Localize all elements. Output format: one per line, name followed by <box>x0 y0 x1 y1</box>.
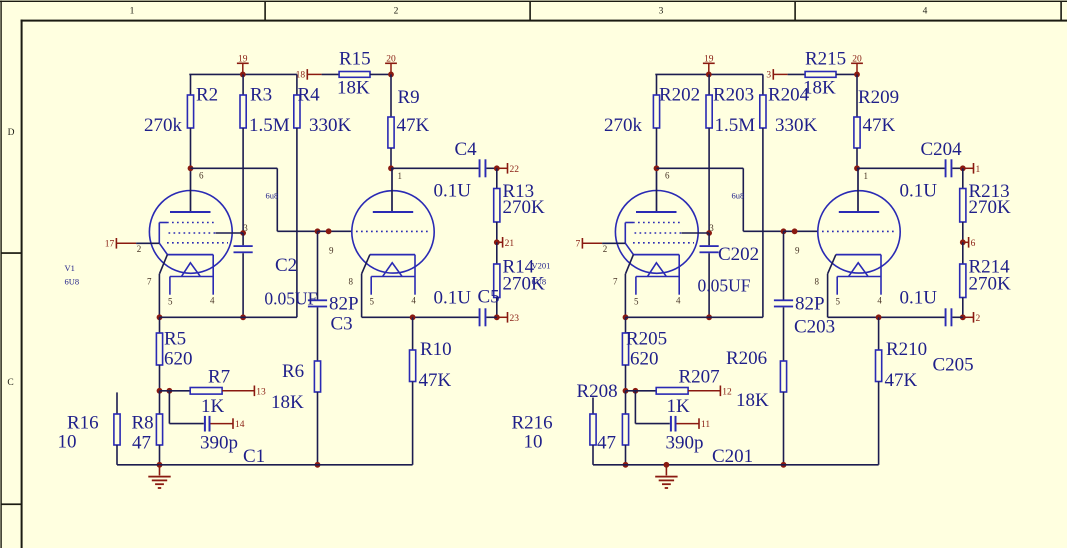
junction triode grid node <box>781 228 787 234</box>
svg-text:7: 7 <box>575 240 580 250</box>
svg-text:R209: R209 <box>858 87 899 108</box>
capacitor C204 <box>945 159 963 177</box>
junction C2 to cathode bus <box>240 314 246 320</box>
svg-text:82P: 82P <box>329 293 359 314</box>
port 22 <box>497 163 519 175</box>
pentode grids <box>159 223 228 244</box>
svg-text:23: 23 <box>510 314 520 324</box>
wire coupling to triode grid node <box>277 230 317 232</box>
svg-text:1K: 1K <box>667 396 691 417</box>
svg-text:10: 10 <box>524 432 543 453</box>
junction node 20 <box>854 72 860 78</box>
svg-text:0.1U: 0.1U <box>900 181 938 202</box>
resistor R216 <box>590 398 596 465</box>
wire coupling to triode grid node <box>743 230 783 232</box>
capacitor C2 <box>234 233 253 317</box>
wire ground bus <box>117 464 413 466</box>
capacitor C201 390p <box>670 416 677 432</box>
wire R6 to ground bus <box>317 392 319 465</box>
svg-text:270k: 270k <box>144 115 183 136</box>
wire pentode cathode pin 7 <box>624 274 626 318</box>
svg-text:R7: R7 <box>208 367 230 388</box>
svg-text:1: 1 <box>976 165 981 175</box>
port 20 <box>385 54 397 74</box>
svg-text:18: 18 <box>296 71 306 81</box>
svg-text:9: 9 <box>329 246 334 256</box>
svg-text:270K: 270K <box>969 274 1012 295</box>
resistor R13 <box>494 168 500 242</box>
svg-text:C204: C204 <box>921 139 963 160</box>
sheet border left band inner vertical <box>21 20 23 548</box>
svg-text:2: 2 <box>394 7 399 17</box>
resistor R208 <box>622 391 628 465</box>
junction node 21 <box>494 239 500 245</box>
svg-text:R216: R216 <box>512 412 553 433</box>
resistor R10 <box>410 317 416 465</box>
port 6 <box>963 237 976 249</box>
port 7 <box>575 238 625 250</box>
triode plate <box>373 168 413 212</box>
junction cap branch <box>633 388 639 394</box>
resistor R209 <box>854 74 860 168</box>
svg-text:2: 2 <box>603 244 608 254</box>
wire to R7 <box>160 390 191 392</box>
svg-text:7: 7 <box>147 277 152 287</box>
wire coupling vertical <box>742 168 744 231</box>
svg-text:6u8: 6u8 <box>732 191 745 201</box>
svg-text:47: 47 <box>132 432 151 453</box>
svg-text:V201: V201 <box>532 261 551 271</box>
junction pentode grid2 node <box>240 230 246 236</box>
capacitor C205 <box>945 308 963 326</box>
resistor R210 <box>876 317 882 465</box>
ground <box>148 465 170 489</box>
junction C2 to cathode bus <box>706 314 712 320</box>
svg-text:R210: R210 <box>886 339 927 360</box>
svg-text:1.5M: 1.5M <box>249 115 290 136</box>
svg-text:R16: R16 <box>67 412 99 433</box>
svg-text:R206: R206 <box>726 348 767 369</box>
svg-text:R202: R202 <box>659 85 700 106</box>
resistor R14 <box>494 242 500 317</box>
junction triode plate node 1 <box>388 165 394 171</box>
svg-text:R4: R4 <box>298 85 321 106</box>
wire top rail <box>189 73 297 75</box>
svg-text:390p: 390p <box>200 432 238 453</box>
wire R15 to node 20 <box>370 73 391 75</box>
svg-text:5: 5 <box>370 297 375 307</box>
svg-text:R205: R205 <box>626 329 667 350</box>
svg-text:C: C <box>7 378 13 388</box>
junction cap branch <box>167 388 173 394</box>
port 19 <box>237 54 249 74</box>
port 3 <box>766 69 805 81</box>
junction triode cathode <box>410 314 416 320</box>
svg-text:13: 13 <box>256 388 266 398</box>
junction R8 ground bus <box>623 462 629 468</box>
row tick D-C <box>1 252 21 254</box>
resistor R9 <box>388 74 394 168</box>
pentode grid2 pin line <box>682 232 710 234</box>
svg-text:11: 11 <box>701 420 710 430</box>
junction node 22 <box>494 165 500 171</box>
svg-text:R203: R203 <box>713 85 754 106</box>
capacitor C203 <box>774 231 793 361</box>
svg-text:0.1U: 0.1U <box>900 288 938 309</box>
svg-text:V1: V1 <box>65 263 75 273</box>
junction R5 bottom <box>157 388 163 394</box>
sheet border outer left line <box>0 1 1 548</box>
svg-text:6U8: 6U8 <box>532 277 547 287</box>
port 18 <box>296 69 340 81</box>
svg-text:47K: 47K <box>419 370 452 391</box>
svg-text:R5: R5 <box>164 329 186 350</box>
wire to R7 <box>626 390 657 392</box>
junction node 23 <box>494 314 500 320</box>
wire grid node to triode grid pin 9 <box>784 230 818 232</box>
junction pentode plate node 6 <box>188 165 194 171</box>
junction node 22 <box>960 165 966 171</box>
svg-text:C1: C1 <box>243 446 265 467</box>
svg-text:C203: C203 <box>794 317 835 338</box>
triode heater <box>837 255 881 295</box>
wire cathode bus <box>160 316 297 318</box>
ground <box>655 465 677 489</box>
svg-text:3: 3 <box>243 223 248 233</box>
svg-text:10: 10 <box>58 432 77 453</box>
tube V1 pentode section <box>149 191 232 274</box>
junction triode grid node <box>315 228 321 234</box>
svg-text:4: 4 <box>210 296 215 306</box>
tube V201 pentode section <box>615 191 698 274</box>
pentode heater <box>636 255 679 295</box>
svg-text:6: 6 <box>199 171 204 181</box>
junction ground <box>664 462 670 468</box>
svg-text:19: 19 <box>238 54 248 64</box>
resistor R205 <box>622 317 628 391</box>
wire cathode to junction <box>828 316 879 318</box>
svg-text:8: 8 <box>349 277 354 287</box>
svg-text:R3: R3 <box>250 85 272 106</box>
svg-text:620: 620 <box>164 349 193 370</box>
svg-text:18K: 18K <box>736 390 769 411</box>
svg-text:4: 4 <box>877 296 882 306</box>
capacitor C4 <box>479 159 497 177</box>
junction pentode plate node 6 <box>654 165 660 171</box>
svg-text:4: 4 <box>411 296 416 306</box>
junction grid pin 9 <box>792 228 798 234</box>
svg-text:12: 12 <box>722 388 732 398</box>
junction R8 ground bus <box>157 462 163 468</box>
capacitor C5 <box>479 308 497 326</box>
svg-text:C3: C3 <box>331 314 353 335</box>
pentode plate <box>636 168 677 212</box>
resistor R2 <box>187 74 193 168</box>
tube triode section <box>352 191 434 273</box>
svg-text:R6: R6 <box>282 361 304 382</box>
svg-text:270K: 270K <box>969 197 1012 218</box>
resistor R15 <box>339 72 370 78</box>
svg-text:0.1U: 0.1U <box>434 181 472 202</box>
svg-text:3: 3 <box>659 7 664 17</box>
triode grid <box>822 230 896 232</box>
junction pentode grid2 node <box>706 230 712 236</box>
port 21 <box>497 237 515 249</box>
wire cathode bus <box>626 316 763 318</box>
wire triode cathode to C5 <box>879 316 945 318</box>
wire cap branch horizontal <box>635 423 669 425</box>
svg-text:270k: 270k <box>604 115 643 136</box>
svg-text:6: 6 <box>971 239 976 249</box>
svg-text:2: 2 <box>976 314 981 324</box>
sheet border outer top line <box>0 1 1067 2</box>
wire cap branch horizontal <box>169 423 203 425</box>
port 2 <box>963 312 981 324</box>
wire cap branch vertical <box>634 391 636 424</box>
svg-text:47K: 47K <box>863 115 896 136</box>
resistor R204 <box>760 74 766 317</box>
svg-text:R2: R2 <box>196 85 218 106</box>
svg-text:1: 1 <box>398 171 403 181</box>
svg-text:5: 5 <box>634 297 639 307</box>
port 11 <box>677 418 711 430</box>
tube triode section <box>818 191 900 273</box>
resistor R4 <box>294 74 300 317</box>
junction node 23 <box>960 314 966 320</box>
wire plate node to C4 <box>391 167 479 169</box>
junction node 19 <box>706 72 712 78</box>
svg-text:18K: 18K <box>803 78 836 99</box>
wire R15 to node 20 <box>836 73 857 75</box>
svg-text:R9: R9 <box>398 87 420 108</box>
wire coupling vertical <box>276 168 278 231</box>
wire R6 to ground bus <box>783 392 785 465</box>
junction grid pin 9 <box>326 228 332 234</box>
triode plate <box>839 168 879 212</box>
junction R5 bottom <box>623 388 629 394</box>
resistor R5 <box>156 317 162 391</box>
capacitor C3 <box>308 231 327 361</box>
wire top rail <box>655 73 763 75</box>
svg-text:0.1U: 0.1U <box>434 288 472 309</box>
row tick C-B <box>1 503 21 505</box>
svg-text:C5: C5 <box>478 286 500 307</box>
wire cathode to junction <box>362 316 413 318</box>
wire triode cathode pin 8 <box>827 274 829 318</box>
junction cathode bus left <box>623 314 629 320</box>
svg-text:7: 7 <box>613 277 618 287</box>
pentode heater <box>170 255 213 295</box>
svg-text:8: 8 <box>815 277 820 287</box>
sheet border column tick 2-3 <box>529 2 531 21</box>
svg-text:D: D <box>8 128 15 138</box>
pentode grid2 pin line <box>216 232 244 234</box>
port 14 <box>211 418 245 430</box>
sheet border column tick right <box>1060 2 1062 21</box>
junction R6 ground bus <box>781 462 787 468</box>
port 20 <box>851 54 863 74</box>
svg-text:6U8: 6U8 <box>65 277 80 287</box>
svg-text:6u8: 6u8 <box>266 191 279 201</box>
svg-text:47: 47 <box>597 432 616 453</box>
svg-text:47K: 47K <box>885 370 918 391</box>
svg-text:C2: C2 <box>275 255 297 276</box>
svg-text:C4: C4 <box>455 139 478 160</box>
junction triode cathode <box>876 314 882 320</box>
svg-text:3: 3 <box>709 223 714 233</box>
svg-text:18K: 18K <box>271 392 304 413</box>
resistor R206 <box>780 361 786 392</box>
triode heater <box>371 255 415 295</box>
wire plate node to C4 <box>857 167 945 169</box>
pentode plate <box>170 168 211 212</box>
svg-text:620: 620 <box>630 349 659 370</box>
pentode cathode <box>159 243 213 274</box>
port 1 <box>963 163 981 175</box>
svg-text:0.05UF: 0.05UF <box>698 276 751 296</box>
port 12 <box>688 386 732 398</box>
svg-text:C202: C202 <box>718 244 759 265</box>
capacitor C1 390p <box>204 416 211 432</box>
resistor R207 <box>656 388 688 395</box>
svg-text:5: 5 <box>836 297 841 307</box>
svg-text:20: 20 <box>852 54 862 64</box>
wire triode cathode pin 8 <box>361 274 363 318</box>
sheet border column tick 1-2 <box>264 2 266 21</box>
svg-text:17: 17 <box>105 240 115 250</box>
svg-text:4: 4 <box>676 296 681 306</box>
svg-text:82P: 82P <box>795 293 825 314</box>
svg-text:5: 5 <box>168 297 173 307</box>
resistor R8 <box>156 391 162 465</box>
svg-text:18K: 18K <box>337 78 370 99</box>
wire triode cathode to C5 <box>413 316 479 318</box>
port 17 <box>105 238 160 250</box>
resistor R16 <box>114 392 120 464</box>
resistor R7 <box>190 388 222 395</box>
pentode grids <box>625 223 694 244</box>
junction node 21 <box>960 239 966 245</box>
port 13 <box>222 386 266 398</box>
svg-text:20: 20 <box>386 54 396 64</box>
svg-text:22: 22 <box>510 165 520 175</box>
svg-text:47K: 47K <box>397 115 430 136</box>
svg-text:19: 19 <box>704 54 714 64</box>
svg-text:6: 6 <box>665 171 670 181</box>
svg-text:1.5M: 1.5M <box>715 115 756 136</box>
resistor R202 <box>653 74 659 168</box>
svg-text:330K: 330K <box>309 115 352 136</box>
resistor R3 <box>240 74 246 233</box>
svg-text:R10: R10 <box>420 339 452 360</box>
junction node 20 <box>388 72 394 78</box>
sheet border column tick 3-4 <box>794 2 796 21</box>
wire ground bus <box>593 464 879 466</box>
wire pentode plate to coupling corner <box>657 167 744 169</box>
triode cathode <box>828 255 881 274</box>
port 23 <box>497 312 519 324</box>
sheet border band bottom line <box>21 20 1067 22</box>
resistor R203 <box>706 74 712 233</box>
svg-text:1: 1 <box>864 171 869 181</box>
wire pentode cathode pin 7 <box>158 274 160 318</box>
resistor R215 <box>805 72 836 78</box>
wire grid node to triode grid pin 9 <box>318 230 352 232</box>
svg-text:14: 14 <box>235 420 245 430</box>
svg-text:R207: R207 <box>679 367 720 388</box>
resistor R6 <box>314 361 320 392</box>
wire pentode plate to coupling corner <box>191 167 278 169</box>
svg-text:R8: R8 <box>132 413 154 434</box>
svg-text:R208: R208 <box>577 381 618 402</box>
svg-text:C205: C205 <box>933 355 974 376</box>
svg-text:R215: R215 <box>805 49 846 70</box>
svg-text:3: 3 <box>766 71 771 81</box>
resistor R214 <box>960 242 966 317</box>
resistor R213 <box>960 168 966 242</box>
triode grid <box>356 230 430 232</box>
svg-text:R15: R15 <box>339 49 371 70</box>
junction R6 ground bus <box>315 462 321 468</box>
svg-text:270K: 270K <box>503 197 546 218</box>
svg-text:4: 4 <box>923 7 928 17</box>
triode cathode <box>362 255 415 274</box>
svg-text:0.05UF: 0.05UF <box>264 289 317 309</box>
svg-text:330K: 330K <box>775 115 818 136</box>
capacitor C202 <box>700 233 719 317</box>
svg-text:C201: C201 <box>712 446 753 467</box>
pentode cathode <box>625 243 679 274</box>
junction triode plate node 1 <box>854 165 860 171</box>
svg-text:9: 9 <box>795 246 800 256</box>
port 19 <box>703 54 715 74</box>
svg-text:2: 2 <box>137 244 142 254</box>
wire cap branch vertical <box>168 391 170 424</box>
junction cathode bus left <box>157 314 163 320</box>
svg-text:1: 1 <box>130 7 135 17</box>
junction node 19 <box>240 72 246 78</box>
svg-text:21: 21 <box>505 239 515 249</box>
svg-text:1K: 1K <box>201 396 225 417</box>
svg-text:390p: 390p <box>666 432 704 453</box>
